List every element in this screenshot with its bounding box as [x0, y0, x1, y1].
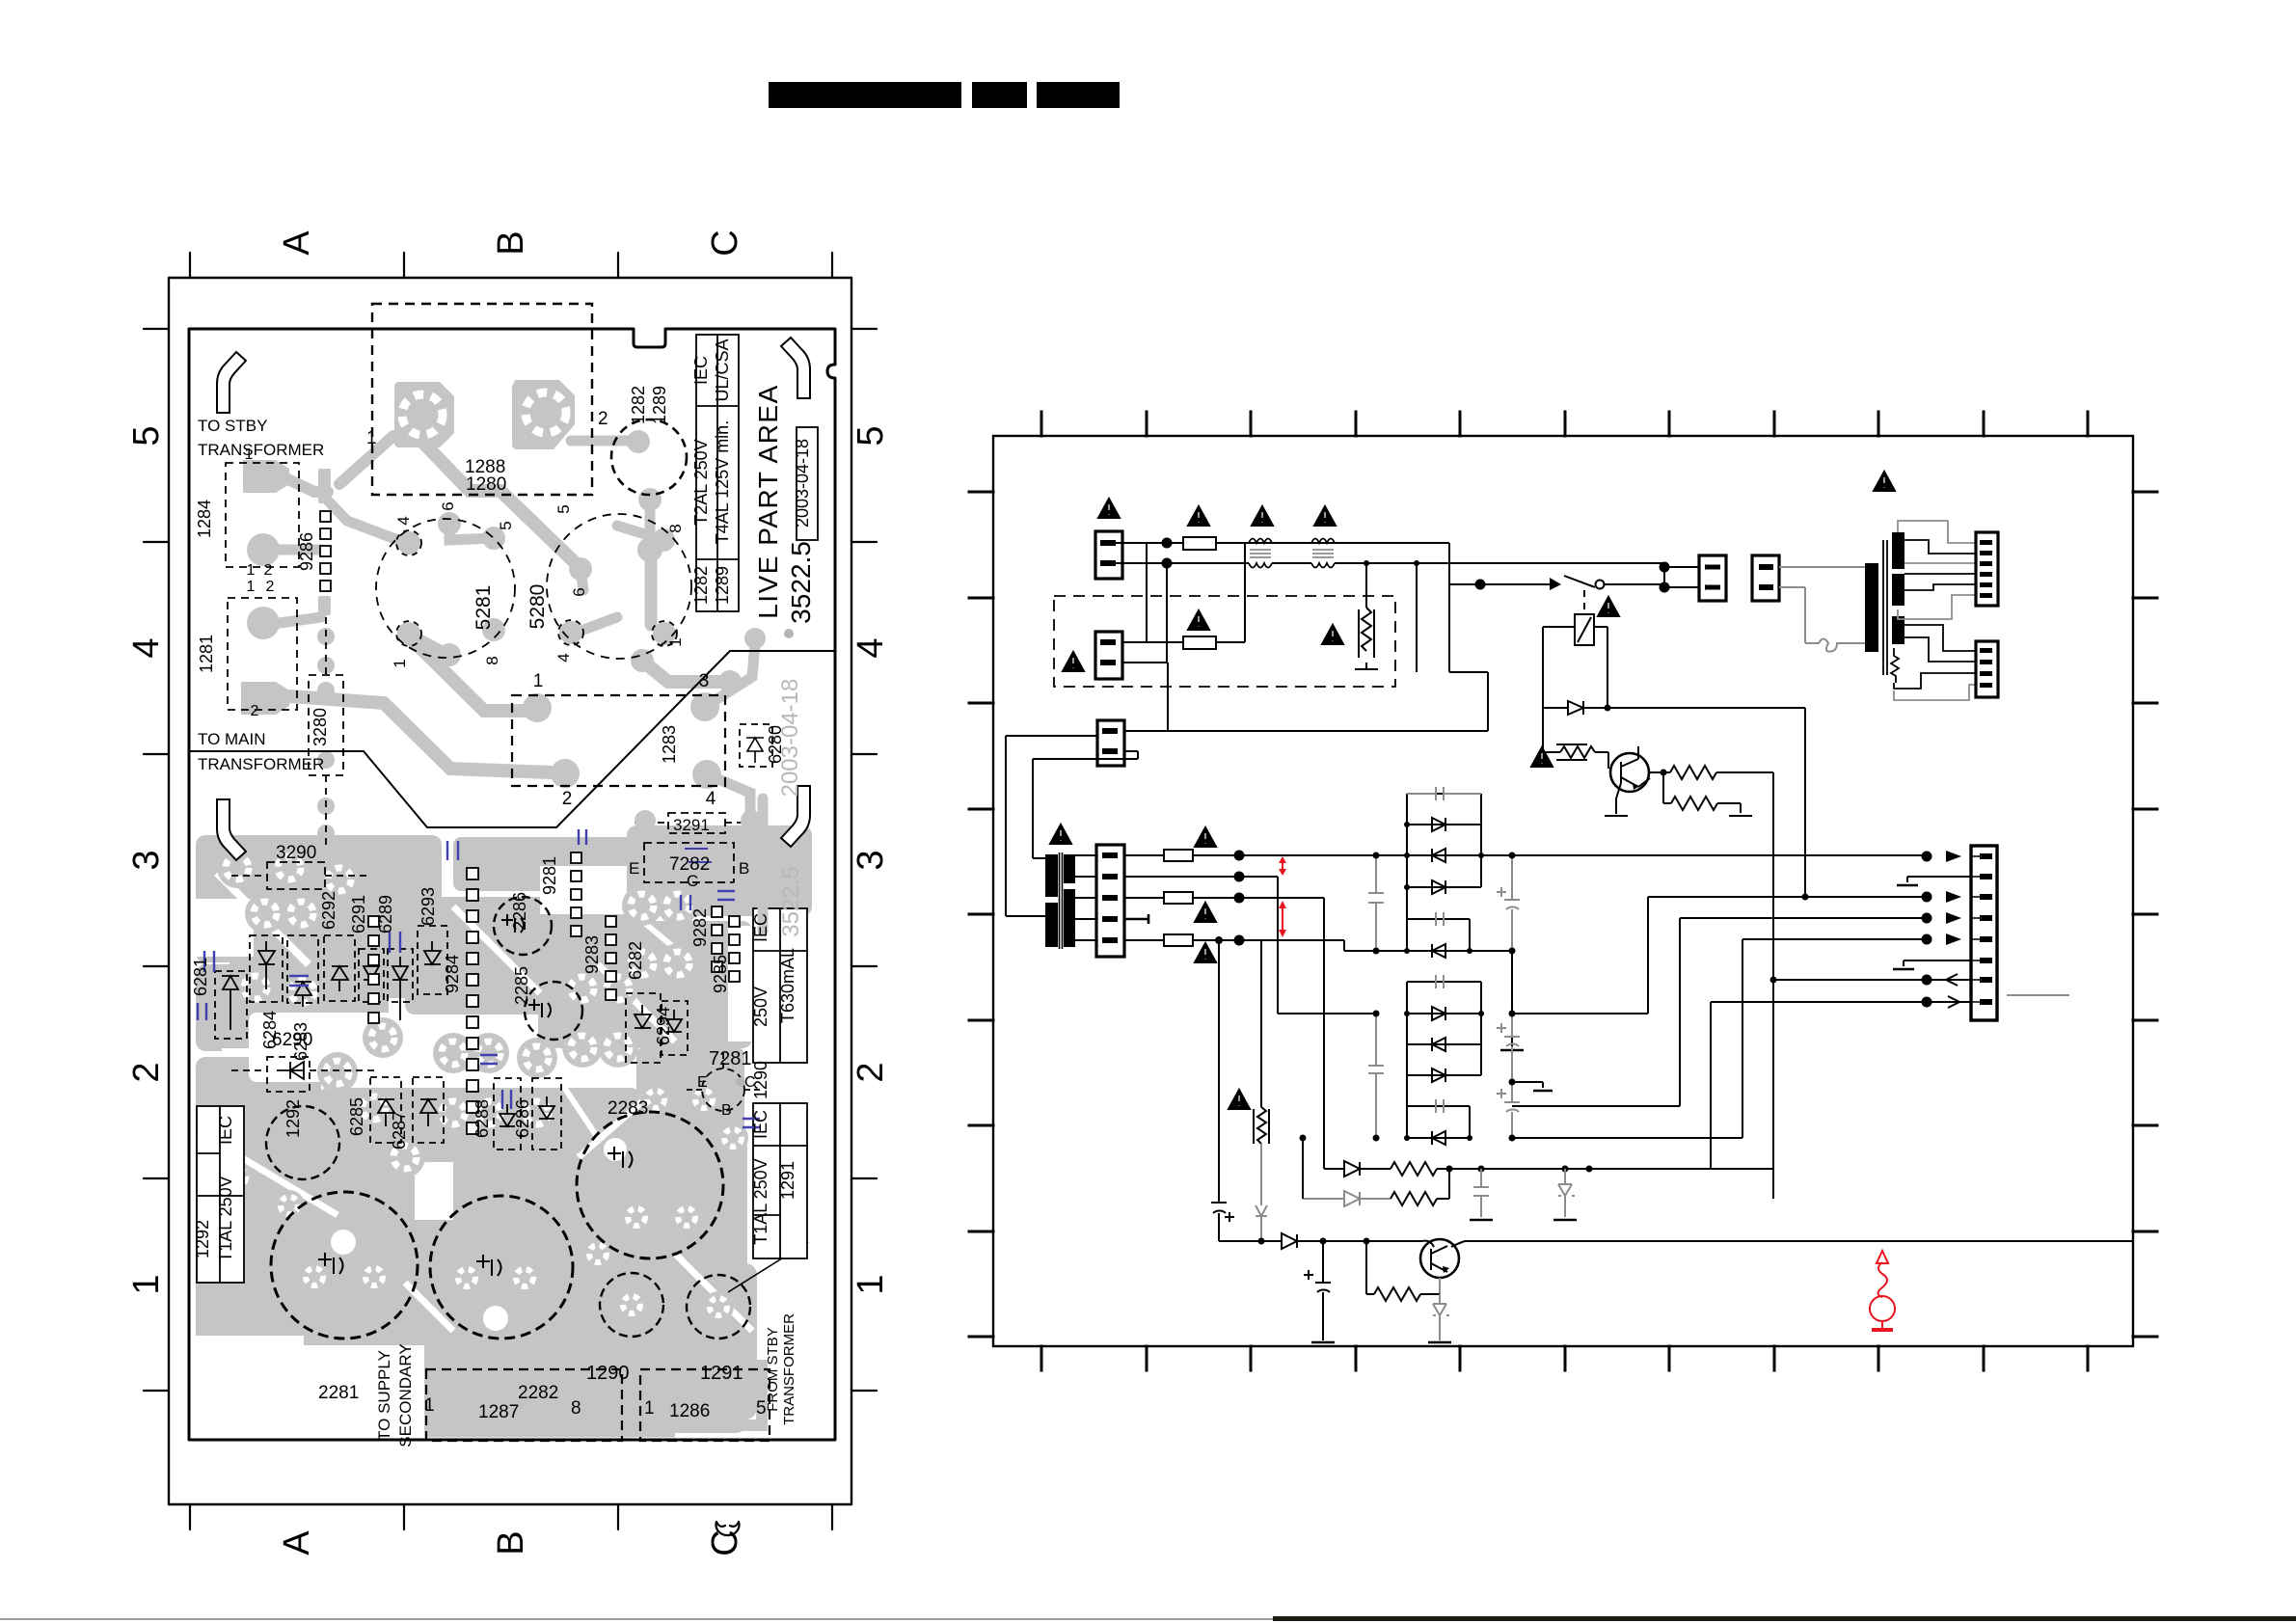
pin6 ground	[1904, 960, 1971, 966]
svg-text:8: 8	[483, 656, 501, 664]
transformer T2	[1045, 854, 1058, 897]
svg-text:T630mAL: T630mAL	[778, 948, 797, 1023]
svg-text:1280: 1280	[466, 474, 506, 495]
svg-text:2: 2	[266, 579, 275, 595]
right table 1291	[753, 1103, 807, 1258]
svg-text:9283: 9283	[582, 935, 602, 974]
svg-text:IEC: IEC	[691, 356, 711, 385]
cap at Q2	[1304, 1241, 1331, 1340]
6286	[532, 1078, 561, 1150]
grey stub right of connector	[2007, 994, 2069, 996]
5281 pads	[397, 531, 420, 555]
svg-text:6: 6	[570, 587, 588, 596]
svg-text:7281: 7281	[709, 1048, 752, 1069]
board outline with notches	[189, 329, 835, 1440]
connector J3	[1097, 720, 1124, 766]
bottom connector dashed rects	[426, 1369, 622, 1441]
svg-text:8: 8	[571, 1398, 581, 1419]
1284 connector blobs	[243, 460, 289, 493]
wire down to output pin3	[1804, 708, 1806, 897]
svg-text:4: 4	[394, 516, 413, 525]
white channels over copper	[196, 866, 786, 1437]
trace 1283 pad3 up	[705, 642, 755, 707]
filter cap bridge1 left	[1368, 855, 1384, 951]
arrows into connector	[1946, 851, 1961, 945]
svg-text:4: 4	[851, 637, 891, 658]
svg-text:6294: 6294	[654, 1007, 673, 1045]
trace cap 1282 pads down	[627, 430, 650, 453]
dashed rect 1288/1280	[372, 304, 592, 495]
diode-resistor row 1	[1324, 1161, 1391, 1177]
trace inside 5281	[449, 524, 494, 540]
dashed big circles bottom (electrolytics)	[271, 1192, 418, 1339]
svg-text:6285: 6285	[347, 1097, 366, 1136]
svg-text:1281: 1281	[197, 635, 216, 673]
dashed rect 1284	[226, 463, 299, 567]
PCB copper and details inserted below	[196, 380, 812, 1433]
6291	[359, 949, 384, 1002]
choke L1	[1249, 539, 1272, 568]
fuse F1	[1183, 537, 1216, 550]
svg-text:1: 1	[366, 428, 377, 448]
svg-text:4: 4	[554, 653, 573, 662]
svg-text:TRANSFORMER: TRANSFORMER	[198, 441, 324, 459]
svg-text:5: 5	[497, 521, 515, 529]
squares column x=388	[368, 916, 379, 1023]
6287	[413, 1077, 444, 1143]
dashed rect 3280	[309, 675, 343, 775]
connector J8	[1096, 845, 1124, 957]
electrolytic cap bridge1	[1497, 855, 1520, 951]
svg-text:6282: 6282	[626, 941, 645, 980]
title bar 1	[769, 82, 961, 108]
svg-text:1290: 1290	[751, 1061, 770, 1099]
svg-text:6: 6	[439, 501, 457, 510]
svg-text:SECONDARY: SECONDARY	[396, 1343, 415, 1447]
svg-text:1: 1	[533, 671, 544, 691]
alignment bracket mid-right	[781, 786, 810, 847]
svg-text:9285: 9285	[711, 955, 730, 993]
svg-text:E: E	[697, 1074, 708, 1091]
PCB text labels	[191, 338, 816, 1447]
5280 pads	[569, 557, 592, 581]
wire L from J1	[1122, 542, 1449, 544]
schematic ticks bottom	[1041, 1346, 2088, 1370]
dashed enclosure box	[1054, 596, 1395, 687]
diagonal near 1291	[728, 1242, 808, 1292]
electrolytic caps bridge2	[1497, 1014, 1520, 1138]
trace 1281 to 1283 pad2	[289, 696, 552, 772]
svg-text:2286: 2286	[510, 892, 529, 931]
wire N from J1	[1122, 562, 1249, 564]
left electrolytic cap	[1218, 940, 1220, 1241]
svg-text:1284: 1284	[195, 500, 214, 538]
svg-text:B: B	[491, 1530, 531, 1555]
svg-text:IEC: IEC	[751, 1110, 770, 1139]
trace inside 5280	[617, 526, 663, 540]
component squares column 9284 (x=490)	[467, 868, 478, 1134]
svg-text:1: 1	[424, 1395, 435, 1416]
left table 1292	[197, 1106, 244, 1283]
svg-text:1286: 1286	[669, 1401, 710, 1421]
svg-text:T1AL 250V: T1AL 250V	[216, 1176, 235, 1261]
frame ticks bottom	[190, 1504, 832, 1529]
connector J2	[1095, 632, 1122, 679]
transformer T1 primary	[1865, 563, 1878, 652]
svg-text:2: 2	[851, 1062, 891, 1082]
pin8 wire	[1711, 1002, 1971, 1169]
dashed circle cap 1282/1289	[611, 419, 687, 495]
dashed rect 1281	[228, 598, 297, 710]
svg-text:1: 1	[391, 659, 409, 667]
7281 transistor dashes	[685, 1051, 762, 1090]
svg-text:1291: 1291	[778, 1161, 797, 1200]
dashed pads on circles	[396, 530, 421, 555]
svg-text:2: 2	[264, 562, 273, 579]
svg-text:T1AL 250V: T1AL 250V	[751, 1158, 770, 1244]
trace pad2 diagonal	[571, 436, 635, 446]
6294/6282 pair	[626, 993, 661, 1063]
transistor Q2	[1420, 1239, 1459, 1278]
alignment bracket top-left	[217, 352, 246, 413]
svg-text:TO SUPPLY: TO SUPPLY	[375, 1350, 393, 1441]
verticals from wire N down to resistor	[1366, 563, 1417, 672]
1283 pads	[523, 693, 552, 722]
svg-text:2: 2	[562, 789, 573, 809]
trace pad1 to circle 5281	[422, 442, 581, 568]
transistor Q1	[1610, 753, 1649, 792]
svg-text:5: 5	[554, 504, 573, 513]
trace 5280 elbow bottom	[642, 661, 730, 682]
svg-text:3280: 3280	[311, 708, 330, 746]
2003-04-18 box	[797, 427, 818, 540]
pin7 wire	[1773, 979, 1971, 981]
copper pad2	[512, 380, 575, 449]
dashed circle 5280	[547, 514, 691, 659]
svg-text:1: 1	[126, 1274, 167, 1294]
svg-text:6287: 6287	[390, 1111, 409, 1150]
svg-text:C: C	[687, 872, 698, 890]
connector J4	[1699, 555, 1726, 601]
trace 1283 pad4 right-down	[707, 774, 750, 897]
svg-text:1290: 1290	[586, 1363, 630, 1384]
frame ticks top	[190, 253, 832, 278]
svg-text:6286: 6286	[513, 1099, 532, 1138]
svg-text:B: B	[721, 1102, 732, 1119]
fuse F2	[1183, 636, 1216, 649]
diode-resistor row 2	[1303, 1191, 1391, 1206]
svg-text:C: C	[705, 230, 745, 256]
title bar 3	[1037, 82, 1120, 108]
svg-text:2283: 2283	[608, 1098, 648, 1119]
left bus into transformer T2	[1006, 858, 1045, 916]
svg-text:6292: 6292	[319, 891, 338, 930]
thermistor branch	[1260, 940, 1262, 1107]
svg-text:1: 1	[247, 562, 256, 579]
copper pour: top-left big pad 1288/1280 area pad1	[394, 382, 454, 447]
diodes bridge1	[1432, 818, 1445, 831]
svg-text:1292: 1292	[284, 1099, 303, 1138]
bridge rectifier 1	[1404, 787, 1484, 958]
grey watermark texts	[777, 679, 804, 937]
relay RY coil	[1575, 614, 1594, 645]
svg-text:T2AL 250V: T2AL 250V	[691, 439, 711, 525]
red earth symbol	[1870, 1251, 1895, 1330]
star pads (through-hole)	[217, 848, 748, 1322]
right table 1290	[753, 908, 807, 1063]
svg-text:2: 2	[251, 703, 259, 719]
svg-text:2: 2	[126, 1062, 167, 1082]
svg-text:6293: 6293	[419, 887, 438, 926]
vertical from wire L down	[1449, 543, 1488, 731]
rotated labels	[191, 338, 816, 1447]
cap polarity marks inside circles	[318, 914, 633, 1276]
svg-text:3291: 3291	[673, 816, 710, 834]
svg-text:A: A	[277, 230, 317, 256]
svg-text:1: 1	[851, 1274, 891, 1294]
svg-text:6281: 6281	[191, 958, 210, 996]
svg-text:1289: 1289	[650, 386, 669, 424]
T1 secondary windings	[1892, 532, 1904, 569]
relay loop wiring	[1543, 627, 1805, 708]
resistor R-base	[1543, 708, 1608, 769]
svg-text:9282: 9282	[690, 908, 710, 947]
svg-text:UL/CSA: UL/CSA	[713, 338, 732, 401]
svg-text:TRANSFORMER: TRANSFORMER	[781, 1313, 797, 1425]
base resistor Q2	[1366, 1241, 1440, 1301]
trace 3280 vertical pads	[317, 628, 335, 645]
svg-text:3522.5: 3522.5	[786, 541, 816, 624]
ground pin4 J8	[1124, 914, 1148, 924]
frame ticks left	[144, 329, 169, 1391]
T1 aux resistor	[1891, 648, 1899, 683]
connector J1 mains input	[1095, 531, 1122, 579]
zener row1	[1558, 1169, 1575, 1217]
svg-text:5: 5	[851, 425, 891, 446]
schematic ticks top	[1041, 412, 2088, 436]
diode D-relay	[1568, 701, 1583, 715]
svg-text:6291: 6291	[349, 895, 368, 933]
svg-text:1282: 1282	[691, 566, 711, 605]
svg-text:IEC: IEC	[751, 913, 770, 942]
svg-text:8: 8	[666, 524, 685, 532]
svg-text:9286: 9286	[297, 532, 316, 571]
secondary wires to connectors	[1894, 521, 1976, 700]
white interiors of big cap circles	[331, 1230, 356, 1255]
9286 pad column top/bottom solid pads	[318, 469, 331, 503]
svg-text:4: 4	[706, 789, 716, 809]
svg-text:6284: 6284	[260, 1011, 280, 1049]
svg-text:4: 4	[126, 637, 167, 658]
dashed rect 6280 with diode	[740, 724, 772, 767]
svg-text:6288: 6288	[473, 1099, 492, 1138]
blue component marks	[198, 829, 760, 1127]
vertical jumper to J2 row	[1147, 543, 1167, 663]
alignment bracket top-right	[781, 338, 810, 398]
svg-text:2: 2	[598, 409, 608, 429]
Q1 collector wiring	[1638, 772, 1670, 787]
dashed rect 3291	[668, 813, 725, 833]
bottom row to transistor Q2	[1219, 1240, 1422, 1242]
connector J7 secondary	[1976, 641, 1998, 697]
zener at Q2	[1433, 1294, 1449, 1340]
svg-text:5280: 5280	[527, 584, 549, 630]
filter cap bridge2 left	[1368, 1014, 1384, 1138]
dashed rect 3290	[267, 862, 325, 889]
outer frame	[169, 278, 851, 1504]
svg-text:1289: 1289	[713, 566, 732, 605]
svg-text:3: 3	[851, 850, 891, 870]
live part boundary polyline	[189, 651, 835, 827]
6289	[388, 949, 413, 1002]
connector J6 secondary	[1976, 532, 1998, 606]
warning triangles	[1098, 499, 1120, 518]
svg-text:B: B	[739, 859, 749, 878]
output connector J-out	[1971, 846, 1997, 1020]
resistor R-c1	[1670, 766, 1773, 1199]
svg-text:TO STBY: TO STBY	[198, 417, 267, 435]
6285	[370, 1077, 401, 1143]
svg-text:IEC: IEC	[216, 1116, 235, 1145]
connector J5	[1752, 555, 1779, 601]
J8 output wires with fuses	[1124, 855, 1239, 940]
red measurement arrows	[1279, 856, 1286, 937]
bridge rectifier 2	[1404, 975, 1484, 1145]
main rail wires	[1239, 854, 1927, 856]
bottom edge artifact strip	[0, 1618, 1273, 1620]
svg-text:1291: 1291	[700, 1363, 743, 1384]
svg-text:6289: 6289	[376, 895, 395, 933]
choke L2	[1311, 539, 1335, 568]
caps in bridge 1	[1407, 787, 1481, 800]
6290	[267, 1057, 310, 1092]
svg-text:1283: 1283	[660, 725, 679, 764]
svg-text:3290: 3290	[276, 843, 316, 863]
squares column 9283 (x=634)	[606, 916, 616, 1000]
svg-text:2003-04-18: 2003-04-18	[777, 679, 803, 798]
svg-text:1292: 1292	[193, 1220, 212, 1258]
svg-text:2285: 2285	[512, 966, 531, 1005]
dashed rect 1283	[512, 695, 725, 786]
svg-text:T4AL 125V min.: T4AL 125V min.	[713, 420, 732, 544]
schematic border frame	[993, 436, 2133, 1346]
squares column 9281 (x=598)	[571, 852, 581, 936]
6292 cap	[324, 935, 355, 1001]
pin2 ground	[1907, 877, 1971, 882]
svg-text:B: B	[491, 230, 531, 255]
svg-text:A: A	[277, 1530, 317, 1555]
1281 connector blobs	[247, 607, 280, 639]
svg-text:9281: 9281	[540, 856, 559, 895]
svg-text:TO MAIN: TO MAIN	[198, 730, 266, 748]
svg-text:9284: 9284	[443, 955, 462, 993]
T2 to connector J8	[1075, 855, 1096, 940]
svg-text:2281: 2281	[318, 1383, 359, 1403]
ground under VDR	[1355, 668, 1378, 670]
svg-text:3522.5: 3522.5	[778, 866, 804, 936]
6288	[494, 1078, 521, 1150]
squares column 9282/9285 (x=744)	[712, 906, 740, 982]
svg-text:LIVE PART AREA: LIVE PART AREA	[753, 384, 783, 619]
svg-text:2003-04-18: 2003-04-18	[793, 439, 812, 527]
junction dots J1 area	[1162, 538, 1173, 549]
6284	[250, 935, 283, 1002]
svg-text:1: 1	[644, 1398, 655, 1419]
dashed rect 7282	[644, 843, 734, 882]
switch SW	[1449, 576, 1595, 587]
title bar 2	[972, 82, 1027, 108]
svg-text:6283: 6283	[291, 1022, 311, 1061]
svg-text:3: 3	[126, 850, 167, 870]
Q1 emitter to ground	[1616, 783, 1621, 814]
snubber cap row1	[1480, 1169, 1482, 1217]
svg-text:2282: 2282	[518, 1383, 558, 1403]
svg-text:FROM STBY: FROM STBY	[765, 1327, 781, 1412]
junction dots J8 outputs	[1234, 851, 1245, 861]
6283	[287, 935, 318, 1003]
schematic ticks left	[969, 492, 993, 1337]
bottom connector copper pads row	[424, 1382, 447, 1405]
wavy link	[1805, 639, 1865, 652]
svg-text:C: C	[705, 1529, 745, 1555]
9286 component squares	[320, 511, 331, 591]
svg-text:1287: 1287	[478, 1402, 519, 1422]
svg-text:250V: 250V	[751, 987, 770, 1027]
frame ticks right	[851, 329, 877, 1391]
6293	[418, 926, 447, 994]
svg-text:5281: 5281	[473, 585, 495, 631]
alignment bracket mid-left	[217, 799, 246, 860]
svg-text:E: E	[629, 859, 639, 878]
wires J5 to transformer	[1779, 566, 1865, 568]
svg-text:TRANSFORMER: TRANSFORMER	[198, 755, 324, 773]
dashed circle 5281	[376, 519, 515, 658]
svg-text:5: 5	[126, 425, 167, 446]
svg-text:3: 3	[699, 671, 710, 691]
junction dots at connector	[1922, 852, 1932, 862]
right top table IEC/ULCSA	[696, 335, 739, 611]
svg-text:1: 1	[247, 579, 256, 595]
diode row components: 6281	[215, 971, 247, 1039]
schematic ticks right	[2133, 492, 2157, 1337]
long wires bridge2 to connector	[1513, 897, 1927, 1014]
resistor R-VDR	[1359, 608, 1374, 658]
trace from 5281 pad1 to 1283 pad1	[409, 636, 526, 711]
board notch mark bottom	[716, 1522, 740, 1535]
trace column to 5281 pad4	[325, 498, 403, 542]
svg-text:1: 1	[666, 637, 685, 646]
svg-text:1: 1	[245, 446, 254, 463]
svg-text:1282: 1282	[629, 386, 648, 424]
resistor R-c2	[1663, 772, 1741, 813]
dashed link switch to relay	[1583, 590, 1585, 614]
